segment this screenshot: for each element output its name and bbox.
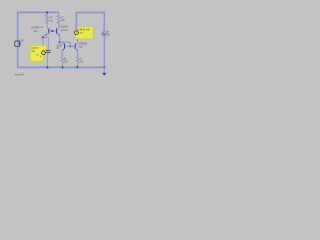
- wire: bottom rail: [17, 66, 105, 68]
- wire: common base of upper pair: [50, 30, 57, 32]
- svg-text:npn: npn: [33, 30, 38, 33]
- capacitor C1: [46, 50, 51, 52]
- svg-text:9V: 9V: [21, 39, 24, 42]
- wire: right branch vertical: [103, 12, 105, 68]
- meter readout box (bottom-left): [30, 45, 46, 61]
- ground: [102, 67, 106, 75]
- node: emitter junction: [42, 37, 44, 39]
- svg-text:6V: 6V: [106, 31, 109, 33]
- node: Q2e/Q3c junction: [59, 41, 61, 43]
- node: upper base junction: [51, 30, 53, 32]
- probe P1 on collector wire: [75, 31, 79, 35]
- svg-text:Jan 04: Jan 04: [15, 73, 24, 77]
- wire: Q4 collector up to rail (over box top): [75, 12, 77, 31]
- wire: left branch vertical: [17, 12, 19, 42]
- battery B1: [15, 41, 20, 46]
- transistor Q1 (upper-left, mirrored NPN): [43, 28, 50, 38]
- wire: probe branch down into readout box: [42, 38, 44, 46]
- transistor Q2 (upper-right NPN): [56, 28, 60, 36]
- box specks: [37, 55, 38, 56]
- node: R4/rail: [76, 66, 78, 68]
- svg-text:npn: npn: [79, 46, 84, 49]
- resistor R3 (Q3 emitter): [61, 50, 64, 67]
- node: lower base junction: [69, 45, 71, 47]
- node: lamp branch / rail / ground: [103, 66, 105, 68]
- resistor R4 (Q4 emitter): [76, 50, 79, 68]
- transistor Q3 (lower-left, mirrored NPN): [62, 43, 70, 51]
- probe P2: [42, 51, 46, 55]
- wire: probe stub inside box: [42, 45, 44, 46]
- meter readout box (right): [75, 27, 93, 39]
- svg-text:1A: 1A: [40, 26, 43, 29]
- svg-text:0A: 0A: [32, 49, 35, 53]
- transistor Q4 (lower-right NPN): [70, 39, 78, 51]
- resistor R2 (hangs from rail corner): [57, 12, 60, 28]
- node: R3/rail: [61, 66, 63, 68]
- lamp L1: [102, 32, 107, 37]
- wire: Q2 emitter down to junction: [59, 35, 61, 42]
- svg-text:npn 1A: npn 1A: [60, 29, 68, 32]
- node: cap/rail: [46, 66, 48, 68]
- resistor R1: [46, 13, 49, 28]
- wire: top-right rail: [76, 12, 105, 14]
- wire: emitter node to capacitor branch: [43, 38, 48, 50]
- wire: across to lower base: [60, 42, 70, 46]
- wire: top-left rail: [17, 11, 59, 13]
- node: rail junction to R1: [46, 11, 48, 13]
- wire: capacitor to bottom rail: [46, 53, 49, 68]
